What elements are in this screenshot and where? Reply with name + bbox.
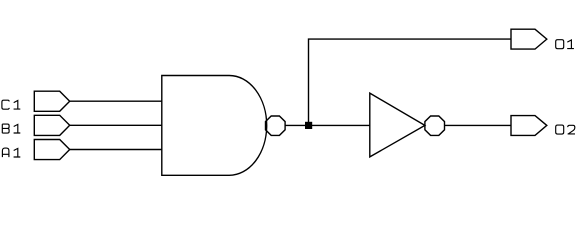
wire B1 to NAND input <box>70 124 162 126</box>
wire inverter output to O2 <box>445 124 512 126</box>
wire A1 to NAND input <box>70 149 162 151</box>
input pin C1 <box>34 91 69 111</box>
label C1 <box>2 100 20 109</box>
inverter output inversion bubble <box>425 116 445 135</box>
input pin B1 <box>34 115 69 135</box>
label O1 <box>556 40 574 49</box>
3-input NAND gate body <box>162 76 267 176</box>
inverter gate <box>370 93 425 157</box>
input pin A1 <box>34 140 69 160</box>
output pin O2 <box>511 116 547 136</box>
wire NAND output to inverter input <box>285 124 370 126</box>
wire C1 to NAND input <box>70 100 162 102</box>
label O2 <box>556 125 575 134</box>
junction node (output net) <box>305 122 312 129</box>
NAND output inversion bubble <box>266 116 286 135</box>
label B1 <box>2 124 20 133</box>
output pin O1 <box>511 29 547 49</box>
label A1 <box>2 148 20 157</box>
wire junction up to O1 net <box>309 39 512 125</box>
